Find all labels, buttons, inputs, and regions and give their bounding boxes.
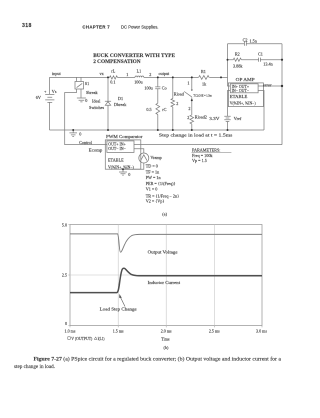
svg-text:ETABLE: ETABLE	[230, 94, 248, 99]
wire: Vref to ground rail	[227, 122, 229, 131]
wire: switch to Rload2	[191, 97, 193, 115]
svg-text:0.5: 0.5	[146, 107, 151, 112]
wire: L1 (node 2) to output node and R1	[144, 76, 199, 78]
Ecomp pin row OUT+ IN+	[108, 143, 125, 147]
sub-figure label (b)	[164, 345, 169, 350]
svg-text:2: 2	[187, 115, 189, 120]
diode D1 branch wire	[107, 77, 109, 130]
PWM comparator Ecomp pin box	[107, 141, 134, 153]
page number 318	[22, 23, 32, 29]
Ecomp pin row OUT- IN-	[108, 147, 125, 151]
inductor current curve	[70, 268, 262, 292]
Ecomp designator	[89, 148, 103, 153]
Vramp param PER	[146, 181, 176, 186]
svg-text:Rload2: Rload2	[195, 115, 207, 120]
svg-text:vx: vx	[100, 71, 105, 76]
battery Vref	[224, 116, 230, 121]
svg-text:2.0 ms: 2.0 ms	[161, 328, 172, 333]
svg-text:PARAMETERS:: PARAMETERS:	[192, 147, 220, 152]
PARAMETERS underline	[192, 152, 232, 154]
Vref designator	[234, 116, 242, 121]
D1 designator	[118, 96, 123, 101]
wire: Vs to ground rail	[49, 102, 51, 130]
svg-text:(a): (a)	[162, 211, 167, 216]
Vramp designator	[150, 155, 161, 160]
svg-text:1: 1	[126, 72, 128, 77]
wire: left branch input down to Vs	[49, 77, 51, 94]
wire: Vramp to Ecomp ground	[124, 163, 144, 169]
rC value 0.5	[146, 107, 151, 112]
PARAMETERS heading	[192, 147, 220, 152]
x tick 3.0 ms	[256, 328, 267, 333]
svg-text:PWM Comparator: PWM Comparator	[106, 134, 143, 139]
svg-text:3.3V: 3.3V	[209, 116, 219, 121]
svg-text:rL: rL	[111, 69, 115, 74]
junction R1 right	[220, 76, 222, 78]
resistor rL	[110, 76, 118, 79]
svg-text:1.5n: 1.5n	[250, 39, 258, 44]
C2 value 1.5n	[250, 39, 258, 44]
wire: step-load switch branch	[191, 77, 193, 89]
junction rC bottom	[157, 129, 159, 131]
op-amp ETABLE label	[230, 94, 248, 99]
Vramp param PW	[146, 175, 162, 180]
op-amp pin row IN+ OUT+	[232, 85, 249, 89]
wire: S1 top stubs to main rail	[77, 77, 82, 81]
gridline 2.5 level	[70, 274, 262, 276]
Vs designator	[52, 89, 57, 94]
svg-text:0: 0	[85, 98, 87, 103]
plot frame	[70, 225, 262, 326]
junction switch blade bottom	[191, 99, 193, 101]
op-amp U2 outer box	[228, 83, 263, 107]
rail ground 0 label	[79, 132, 81, 137]
svg-text:Sbreak: Sbreak	[86, 90, 99, 95]
step switch pin 1	[187, 80, 189, 85]
svg-text:Vramp: Vramp	[150, 155, 161, 160]
svg-text:0: 0	[79, 132, 81, 137]
battery Vs 6V	[45, 94, 54, 102]
svg-text:100u: 100u	[134, 80, 143, 85]
C2 designator	[243, 37, 248, 42]
resistor Rload	[171, 99, 175, 107]
svg-text:2.5 ms: 2.5 ms	[209, 328, 220, 333]
legend I(L1) text	[98, 336, 105, 341]
svg-text:1k: 1k	[202, 82, 207, 87]
svg-text:V(%IN+, %IN−): V(%IN+, %IN−)	[230, 102, 257, 107]
wire: R1 to compensation node, down to op-amp IN+	[209, 77, 230, 86]
Control net label	[79, 140, 93, 145]
switch U1 TCLOSE blade	[184, 89, 192, 97]
step switch TCLOSE value	[193, 93, 212, 97]
ground 0 on main rail	[69, 130, 77, 137]
svg-text:output: output	[159, 71, 171, 76]
op-amp expression	[230, 102, 257, 107]
node error label	[263, 82, 272, 87]
figure caption	[14, 356, 282, 370]
output voltage curve	[70, 234, 262, 252]
wire: Rload branch	[172, 77, 174, 130]
wire: compensation right vertical down to error node and comparator	[281, 44, 283, 145]
annotation arrow	[119, 294, 125, 307]
svg-text:V1 = 0: V1 = 0	[146, 186, 158, 191]
svg-text:2: 2	[176, 101, 178, 106]
svg-text:R1: R1	[201, 69, 206, 74]
legend V(OUTPUT) text	[71, 336, 93, 341]
node error junction	[281, 85, 283, 87]
junction dots	[72, 59, 283, 171]
PWM comparator Ecomp outer box	[105, 140, 141, 169]
wire: Ecomp ground stub	[122, 169, 124, 172]
svg-text:0.1: 0.1	[110, 80, 115, 85]
legend V(OUTPUT) marker	[68, 337, 71, 340]
svg-text:V2 = {Vp}: V2 = {Vp}	[146, 198, 165, 203]
Rload2 designator	[195, 115, 207, 120]
junction step switch top	[191, 76, 193, 78]
node output label	[159, 71, 171, 76]
node vx label	[100, 71, 105, 76]
rL value 0.1	[110, 80, 115, 85]
svg-text:1.5 ms: 1.5 ms	[113, 328, 124, 333]
axis tick stubs	[68, 225, 262, 328]
circuit text labels	[36, 37, 274, 216]
x tick 1.5 ms	[113, 328, 124, 333]
comparator ground 0 label	[128, 172, 130, 177]
svg-text:Load Step Change: Load Step Change	[100, 307, 137, 312]
wire: S1 to ideal-switch ground	[80, 89, 82, 98]
ground 0 (comparator)	[119, 172, 127, 175]
svg-text:2: 2	[149, 72, 151, 77]
Vs plus sign	[44, 89, 47, 94]
junction output/Co	[157, 76, 159, 78]
wire: rL to L1 (node 1)	[118, 76, 136, 78]
svg-text:OP AMP: OP AMP	[236, 77, 256, 82]
svg-text:Inductor Current: Inductor Current	[148, 280, 181, 285]
wire: compensation network left vertical	[227, 44, 229, 78]
capacitor Co	[155, 87, 160, 89]
svg-text:Co: Co	[162, 86, 167, 91]
Rload2 value 2	[187, 115, 189, 120]
wire: Ecomp IN+ to error vertical	[134, 144, 282, 146]
svg-text:Control: Control	[79, 140, 93, 145]
junction R2 left	[227, 59, 229, 61]
schematic title	[93, 53, 175, 65]
gridline 2.5ms	[213, 225, 215, 326]
running header CHAPTER 7 DC Power Supplies	[82, 25, 158, 30]
svg-text:C2: C2	[243, 37, 248, 42]
Ideal Switches note line 2	[89, 105, 104, 110]
svg-text:Dbreak: Dbreak	[114, 102, 127, 107]
Rload value 2	[176, 101, 178, 106]
svg-text:OUT− IN−: OUT− IN−	[108, 147, 125, 151]
L1 pin 1	[126, 72, 128, 77]
source Vramp	[139, 153, 149, 163]
diode D1	[105, 101, 111, 105]
op-amp pin row IN- OUT-	[232, 89, 249, 93]
node input label	[52, 71, 61, 76]
L1 pin 2	[149, 72, 151, 77]
C1 designator	[258, 51, 263, 56]
svg-text:(b): (b)	[164, 345, 169, 350]
svg-text:Rload: Rload	[174, 92, 185, 97]
Vs value 6V	[36, 95, 41, 100]
Vramp param TD	[146, 164, 158, 169]
svg-text:100u: 100u	[144, 86, 153, 91]
junction Rload top	[172, 76, 174, 78]
resistor R1	[199, 76, 210, 80]
capacitor C1	[259, 58, 261, 62]
svg-text:Vs: Vs	[52, 89, 57, 94]
Ideal Switches note line 1	[92, 99, 101, 104]
junction Rload2 bottom	[191, 129, 193, 131]
svg-text:318: 318	[22, 23, 32, 29]
svg-text:0: 0	[65, 321, 67, 326]
svg-text:V (OUTPUT): V (OUTPUT)	[71, 336, 93, 341]
x axis title Time	[161, 337, 170, 342]
x tick 1.0 ms	[65, 328, 76, 333]
Vramp param TF	[146, 169, 160, 174]
svg-text:2.5: 2.5	[62, 272, 67, 277]
gridline 1.5ms	[117, 225, 119, 326]
junction Vref bottom	[227, 129, 229, 131]
ideal switches ground 0 label	[85, 98, 87, 103]
gridline 2.0ms	[165, 225, 167, 326]
D1 model Dbreak	[114, 102, 127, 107]
svg-text:OUT+ IN+: OUT+ IN+	[108, 143, 125, 147]
R1 designator	[201, 69, 206, 74]
resistor rC	[156, 103, 160, 114]
Vramp param TR	[146, 193, 179, 198]
svg-text:I(L1): I(L1)	[98, 336, 105, 341]
svg-text:Vref: Vref	[234, 116, 242, 121]
switch S1 box	[75, 82, 84, 90]
wire: op-amp OUT+ to error node	[258, 85, 282, 87]
y tick 0	[65, 321, 67, 326]
svg-text:V(%IN+, %IN−): V(%IN+, %IN−)	[108, 165, 135, 170]
svg-text:L1: L1	[137, 69, 142, 74]
svg-text:1: 1	[187, 80, 189, 85]
R2 designator	[235, 51, 240, 56]
svg-text:6V: 6V	[36, 95, 41, 100]
svg-text:error: error	[263, 82, 272, 87]
S1 designator	[85, 81, 89, 86]
svg-text:Time: Time	[161, 337, 170, 342]
svg-text:0: 0	[128, 172, 130, 177]
plot label Load Step Change	[100, 307, 137, 312]
wire: op-amp OUT- return	[258, 91, 264, 131]
wire: output capacitor branch	[157, 77, 159, 130]
svg-text:Ecomp: Ecomp	[89, 148, 103, 153]
svg-text:Vp = 1.5: Vp = 1.5	[192, 158, 207, 163]
Co designator	[162, 86, 167, 91]
inductor L1	[135, 76, 144, 77]
op-amp title	[236, 77, 256, 82]
resistor Rload2	[190, 115, 194, 124]
wire: C2 top branch	[228, 43, 283, 45]
svg-text:rC: rC	[162, 107, 166, 112]
wire: R2/C1 middle branch	[228, 59, 283, 61]
step switch pin 2	[188, 106, 190, 111]
wire: S1 control lead down-left (Control net)	[65, 89, 107, 145]
svg-text:13.4n: 13.4n	[263, 61, 273, 66]
svg-text:R2: R2	[235, 51, 240, 56]
svg-text:IN− OUT−: IN− OUT−	[232, 89, 249, 93]
junction Rload bottom	[172, 129, 174, 131]
Vramp param V1	[146, 186, 158, 191]
svg-text:Ideal: Ideal	[92, 99, 101, 104]
wire: Rload2 to ground rail	[191, 124, 193, 130]
capacitor C2	[244, 42, 246, 46]
Ecomp ETABLE label	[108, 158, 124, 163]
svg-text:5.0: 5.0	[62, 222, 67, 227]
junction D1 bottom	[107, 129, 109, 131]
y tick 5.0	[62, 222, 67, 227]
Vramp param V2	[146, 198, 165, 203]
S1 model Sbreak	[86, 90, 99, 95]
svg-text:Switches: Switches	[89, 105, 104, 110]
PWM Comparator heading	[106, 134, 143, 139]
plot label Inductor Current	[148, 280, 181, 285]
L1 designator	[137, 69, 142, 74]
svg-text:S1: S1	[85, 81, 89, 86]
rC designator	[162, 107, 166, 112]
op-amp U2 pin box	[230, 84, 258, 93]
rL designator	[111, 69, 115, 74]
svg-text:ETABLE: ETABLE	[108, 158, 124, 163]
sub-figure label (a)	[162, 211, 167, 216]
svg-text:TCLOSE = 1.5m: TCLOSE = 1.5m	[193, 93, 212, 97]
svg-text:2 COMPENSATION: 2 COMPENSATION	[93, 59, 141, 65]
resistor R2	[233, 58, 241, 61]
Ecomp expression	[108, 165, 135, 170]
R2 value 3.88k	[233, 63, 243, 68]
svg-text:3.0 ms: 3.0 ms	[256, 328, 267, 333]
R1 value 1k	[202, 82, 207, 87]
svg-text:step change in load.: step change in load.	[14, 364, 56, 370]
svg-text:Step change in load at t = 1.5: Step change in load at t = 1.5ms	[159, 133, 233, 138]
PARAMETERS Vp value	[192, 158, 207, 163]
plot label Output Voltage	[148, 249, 178, 254]
junction C1 right	[281, 59, 283, 61]
svg-text:3.88k: 3.88k	[233, 63, 243, 68]
y tick 2.5	[62, 272, 67, 277]
legend I(L1) marker	[94, 337, 97, 340]
wire: Ecomp IN- to Vramp	[134, 149, 144, 153]
svg-text:DC Power Supplies.: DC Power Supplies.	[121, 25, 158, 30]
node vx junction	[107, 76, 109, 78]
PARAMETERS Freq value	[192, 153, 213, 158]
Vref value 3.3V	[209, 116, 219, 121]
svg-text:TD = 0: TD = 0	[146, 164, 158, 169]
ground 0 (ideal switches)	[77, 98, 86, 102]
svg-text:D1: D1	[118, 96, 123, 101]
C1 value 13.4n	[263, 61, 273, 66]
wire: bottom ground rail	[50, 129, 265, 131]
svg-text:input: input	[52, 71, 61, 76]
wire: op-amp IN- to Vref	[228, 91, 231, 117]
svg-text:2: 2	[188, 106, 190, 111]
svg-text:C1: C1	[258, 51, 263, 56]
junction Ecomp ground	[122, 168, 124, 170]
svg-text:TF = 1n: TF = 1n	[146, 169, 160, 174]
svg-text:+: +	[44, 89, 47, 94]
Rload designator	[174, 92, 185, 97]
junction rail ground	[72, 129, 74, 131]
step change annotation	[159, 133, 233, 138]
svg-text:CHAPTER 7: CHAPTER 7	[82, 25, 110, 30]
x tick 2.0 ms	[161, 328, 172, 333]
svg-text:Output Voltage: Output Voltage	[148, 249, 178, 254]
wire: main top rail input to vx	[50, 76, 110, 78]
svg-text:PW = 1n: PW = 1n	[146, 175, 162, 180]
x tick 2.5 ms	[209, 328, 220, 333]
svg-text:Figure 7-27 (a) PSpice circui: Figure 7-27 (a) PSpice circuit for a reg…	[34, 356, 282, 363]
svg-text:1.0 ms: 1.0 ms	[65, 328, 76, 333]
Co value 100u	[144, 86, 153, 91]
L1 value 100u	[134, 80, 143, 85]
